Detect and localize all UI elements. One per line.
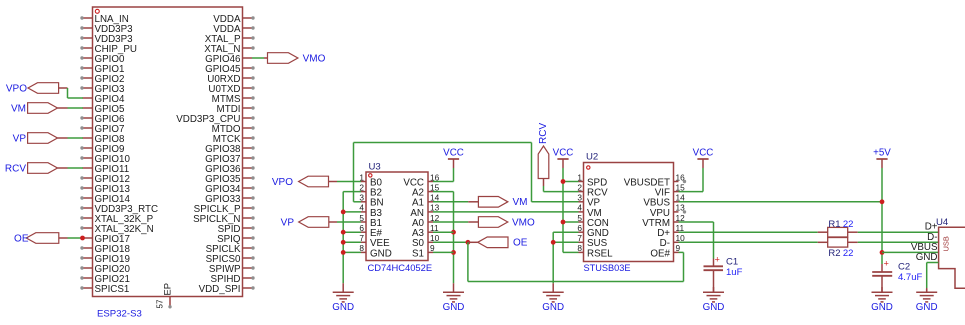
svg-text:3: 3 [577,193,582,203]
svg-text:CD74HC4052E: CD74HC4052E [368,262,433,273]
svg-text:GND: GND [703,302,725,313]
svg-text:U2: U2 [586,152,598,163]
svg-text:VMO: VMO [303,53,326,64]
svg-text:C1: C1 [726,256,738,267]
svg-text:VPO: VPO [6,83,27,94]
svg-text:SPICS1: SPICS1 [95,284,130,295]
svg-text:GND: GND [370,248,392,259]
svg-text:U3: U3 [369,162,381,173]
svg-text:VMO: VMO [512,217,535,228]
svg-text:R2: R2 [828,248,840,259]
svg-text:STUSB03E: STUSB03E [584,263,631,273]
svg-text:VM: VM [11,103,26,114]
svg-text:VDD_SPI: VDD_SPI [199,284,241,295]
svg-text:VP: VP [13,133,27,144]
svg-text:GND: GND [871,302,893,313]
svg-text:RSEL: RSEL [587,248,613,259]
svg-text:GND: GND [542,302,564,313]
svg-text:4.7uF: 4.7uF [898,272,922,283]
svg-text:VPO: VPO [272,177,293,188]
svg-text:4: 4 [577,203,582,213]
svg-text:1uF: 1uF [726,267,743,278]
svg-text:VP: VP [281,217,295,228]
svg-text:C2: C2 [898,262,910,273]
svg-text:GND: GND [916,252,938,263]
svg-text:VCC: VCC [443,147,464,158]
svg-text:OE: OE [513,238,528,249]
svg-text:OE: OE [14,233,29,244]
svg-text:GND: GND [443,302,465,313]
svg-text:OE#: OE# [650,248,670,259]
svg-text:GND: GND [916,302,938,313]
svg-text:EP: EP [162,283,172,295]
svg-text:VM: VM [513,197,528,208]
svg-text:U4: U4 [936,217,949,228]
svg-text:9: 9 [676,243,681,253]
svg-text:57: 57 [155,299,164,308]
svg-text:22: 22 [843,219,854,230]
svg-text:RCV: RCV [538,123,549,144]
svg-text:22: 22 [843,248,854,259]
svg-text:+: + [715,254,720,264]
svg-text:USB: USB [942,236,951,251]
svg-text:RCV: RCV [5,163,26,174]
svg-text:R1: R1 [828,219,840,230]
svg-text:ESP32-S3: ESP32-S3 [97,309,142,320]
svg-text:+5V: +5V [873,147,891,158]
svg-text:S1: S1 [412,248,424,259]
svg-text:VCC: VCC [553,147,574,158]
svg-text:VCC: VCC [693,147,714,158]
svg-text:+: + [884,258,889,268]
svg-text:GND: GND [332,302,354,313]
